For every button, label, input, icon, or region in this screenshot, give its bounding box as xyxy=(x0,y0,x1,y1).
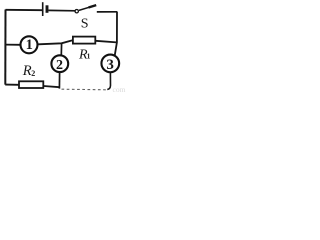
wire ammeter 1 to junction xyxy=(38,40,72,44)
wire top-left segment xyxy=(6,9,43,11)
svg-text:2: 2 xyxy=(56,58,63,73)
wire R1 to right border xyxy=(96,41,117,43)
wire battery to switch xyxy=(49,9,76,11)
wire junction drop to meter 2 xyxy=(60,43,62,55)
switch S arm xyxy=(79,5,96,10)
resistor R1 xyxy=(73,37,95,44)
battery short thick plate xyxy=(46,5,49,13)
wire right border xyxy=(115,12,117,57)
battery long plate xyxy=(42,2,44,16)
wire meter 2 drop xyxy=(58,72,60,88)
svg-text:3: 3 xyxy=(106,57,114,73)
ammeter 1 xyxy=(21,36,38,53)
wire R2 to meter 2 drop xyxy=(44,86,60,87)
wire left border xyxy=(4,10,6,85)
svg-text:1: 1 xyxy=(26,37,33,53)
voltmeter 3 xyxy=(101,55,119,73)
svg-text:2: 2 xyxy=(31,69,35,78)
svg-text:S: S xyxy=(81,17,89,32)
switch S pivot xyxy=(75,10,78,13)
switch S arm tip xyxy=(89,5,97,7)
wire meter 3 drop with hook xyxy=(107,73,110,90)
svg-text:1: 1 xyxy=(87,52,91,61)
voltmeter 2 xyxy=(51,55,68,72)
wire switch to top-right corner xyxy=(97,11,117,13)
wire left border to ammeter 1 xyxy=(6,44,21,46)
resistor R2 xyxy=(19,81,43,88)
svg-text:com: com xyxy=(113,85,126,94)
wire bottom-left xyxy=(5,84,19,86)
wire bottom dashed segment xyxy=(62,88,108,91)
